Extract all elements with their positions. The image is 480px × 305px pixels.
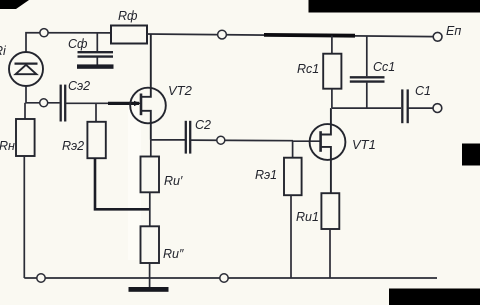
svg-text:Rи″: Rи″ bbox=[163, 247, 184, 261]
wire Rи1 to rail bbox=[329, 229, 331, 278]
resistor Rи" bbox=[141, 226, 184, 263]
transistor VT2 bbox=[130, 34, 192, 140]
terminal output bbox=[433, 104, 442, 113]
svg-text:Rи1: Rи1 bbox=[296, 210, 319, 224]
terminal Еп bbox=[433, 24, 461, 41]
capacitor Сс1 bbox=[350, 36, 395, 108]
svg-text:VT2: VT2 bbox=[168, 83, 193, 98]
capacitor C2 bbox=[151, 118, 211, 154]
capacitor C1 bbox=[402, 84, 433, 123]
wire C2 to VT1 gate bbox=[191, 139, 293, 142]
wire Сэ2 to VT2 gate bbox=[66, 102, 141, 104]
wire thick gate segment bbox=[108, 102, 139, 105]
wire bottom rail bbox=[24, 277, 437, 279]
capacitor Сф bbox=[68, 33, 113, 65]
wire Rи' to Rи" bbox=[149, 192, 151, 226]
transistor VT1 bbox=[293, 108, 376, 193]
wire Rэ1 to rail bbox=[290, 195, 292, 278]
scan artifact top-left bbox=[0, 0, 29, 9]
wire Rэ2 bottom to Rи junction bbox=[95, 158, 150, 209]
ground bar under Сф bbox=[77, 64, 114, 68]
svg-text:Сэ2: Сэ2 bbox=[68, 79, 90, 93]
wire Rн to bottom rail bbox=[23, 156, 25, 278]
svg-text:Rэ2: Rэ2 bbox=[62, 139, 84, 153]
svg-text:Rи′: Rи′ bbox=[164, 174, 183, 188]
wire Rc1 to drain junction bbox=[331, 89, 333, 108]
wire photodiode bottom to gate node bbox=[26, 86, 60, 103]
node on bottom rail middle bbox=[220, 274, 228, 282]
resistor Rи' bbox=[141, 140, 183, 193]
svg-text:Сф: Сф bbox=[68, 37, 88, 51]
svg-text:C2: C2 bbox=[195, 118, 211, 132]
node on top rail bbox=[218, 30, 227, 39]
scan artifact bottom-right bbox=[389, 289, 480, 305]
capacitor Сэ2 bbox=[61, 79, 90, 122]
svg-text:Rэ1: Rэ1 bbox=[255, 168, 277, 182]
resistor Rc1 bbox=[297, 36, 341, 89]
resistor Rи1 bbox=[296, 193, 339, 229]
scan artifact top-right bbox=[309, 0, 480, 13]
resistor Rн bbox=[0, 103, 35, 156]
resistor Rф bbox=[111, 9, 147, 44]
svg-text:Rн: Rн bbox=[0, 139, 15, 153]
svg-text:VT1: VT1 bbox=[352, 137, 376, 152]
node at top-left rail bbox=[40, 29, 48, 37]
wire thick segment of top rail bbox=[264, 33, 355, 38]
svg-text:Еп: Еп bbox=[446, 24, 461, 38]
resistor Rэ2 bbox=[62, 103, 106, 158]
svg-text:Сс1: Сс1 bbox=[373, 60, 395, 74]
svg-text:Rc1: Rc1 bbox=[297, 62, 319, 76]
svg-text:Rф: Rф bbox=[118, 9, 138, 23]
ground bbox=[129, 287, 169, 292]
wire top-left from photodiode to rail bbox=[26, 33, 111, 52]
resistor Rэ1 bbox=[255, 141, 302, 196]
wire Rи" to rail bbox=[149, 263, 151, 287]
wire top rail to Еп bbox=[147, 34, 434, 37]
node at gate junction bbox=[40, 99, 48, 107]
node on bottom rail left bbox=[37, 274, 45, 282]
photodiode Rl bbox=[0, 44, 43, 86]
svg-text:C1: C1 bbox=[415, 84, 431, 98]
wire drain junction to C1 bbox=[332, 107, 401, 109]
node on C2 wire bbox=[217, 136, 225, 144]
scan artifact right-middle bbox=[462, 144, 480, 166]
